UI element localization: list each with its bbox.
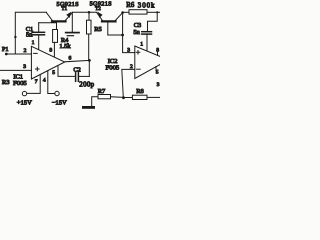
node junction dot on left vertical [14, 36, 16, 38]
svg-text:5G921S: 5G921S [90, 1, 113, 8]
wire C1 to T1 base / R4 [39, 22, 57, 24]
wire IC1 pin7 to +15V [27, 75, 40, 94]
wire IC1 pin3 input [0, 69, 31, 71]
IC1 minus sign [34, 52, 38, 54]
svg-text:R5: R5 [94, 26, 102, 33]
transistor T1 [47, 12, 73, 23]
svg-text:R3: R3 [2, 79, 10, 86]
svg-text:1: 1 [32, 40, 35, 46]
svg-text:R6: R6 [126, 2, 135, 9]
resistor R7 [98, 95, 124, 99]
svg-text:R7: R7 [98, 88, 106, 95]
node emitter-rail dot [88, 11, 91, 14]
node bottom rail dot [122, 96, 125, 99]
capacitor C3 5n [142, 12, 157, 51]
svg-text:C3: C3 [134, 22, 141, 29]
ground (emitter rail) [66, 12, 79, 35]
svg-text:3: 3 [23, 64, 26, 70]
svg-text:8: 8 [49, 48, 52, 54]
transistor T2 [97, 12, 123, 35]
svg-text:−15V: −15V [52, 100, 67, 107]
svg-text:5n: 5n [133, 29, 140, 36]
wire IC1 pin4 to -15V [48, 71, 55, 94]
svg-text:F005: F005 [13, 80, 27, 87]
resistor R6 300k [123, 10, 160, 14]
terminal -15V circle [55, 91, 59, 95]
svg-text:1: 1 [140, 41, 143, 47]
svg-text:F005: F005 [106, 65, 120, 72]
wire IC1 output [65, 60, 90, 61]
svg-text:300k: 300k [138, 2, 156, 9]
node IC1 output dot [88, 59, 91, 62]
wire P1 stub [7, 53, 15, 55]
wire R7 to ground [92, 97, 98, 106]
IC2 minus sign [137, 68, 141, 70]
svg-text:5G921S: 5G921S [57, 1, 80, 8]
wire IC2 pin2 [122, 69, 135, 97]
capacitor C1 5n [32, 23, 45, 50]
node T2 collector / R6 dot [121, 11, 124, 14]
svg-text:5n: 5n [26, 31, 33, 38]
wire T2 collector down to IC2 pin3 [123, 13, 135, 53]
IC1 plus sign [36, 67, 40, 71]
svg-text:+15V: +15V [17, 100, 32, 107]
wire top-left collector rail [15, 12, 46, 54]
wire emitter rail T1 to T2 [72, 11, 97, 13]
wire IC1 pin5 to C2 [58, 66, 75, 77]
IC2 plus sign [136, 51, 140, 55]
svg-text:7: 7 [35, 79, 38, 85]
op-amp IC2 (apex clipped at right) [135, 46, 160, 79]
svg-text:6: 6 [69, 56, 72, 62]
svg-text:3: 3 [157, 82, 160, 88]
capacitor C2 200p [76, 60, 90, 81]
svg-text:1.5k: 1.5k [59, 43, 71, 50]
wire IC1 pin2 input [15, 53, 31, 55]
ground (bottom) [82, 106, 95, 109]
svg-text:2: 2 [24, 48, 27, 54]
terminal +15V circle [22, 91, 26, 95]
node C3 top junction [156, 11, 158, 13]
svg-text:200p: 200p [79, 81, 94, 88]
pin 8 stub (IC2) [157, 52, 159, 56]
svg-text:5: 5 [52, 70, 55, 76]
svg-text:R8: R8 [136, 88, 144, 95]
resistor R5 [87, 12, 92, 60]
op-amp IC1 [31, 46, 64, 79]
resistor R4 1.5k [53, 23, 58, 57]
resistor R8 [124, 95, 161, 99]
pin 5 stub (IC2) [155, 67, 157, 71]
node T2 base-collector junction dot [121, 34, 124, 37]
terminal P1 bullet [5, 53, 8, 56]
svg-text:P1: P1 [2, 46, 9, 53]
svg-text:3: 3 [127, 47, 130, 53]
svg-text:4: 4 [43, 78, 46, 84]
wire T2 base to collector node [108, 34, 123, 36]
svg-text:C2: C2 [73, 66, 80, 73]
